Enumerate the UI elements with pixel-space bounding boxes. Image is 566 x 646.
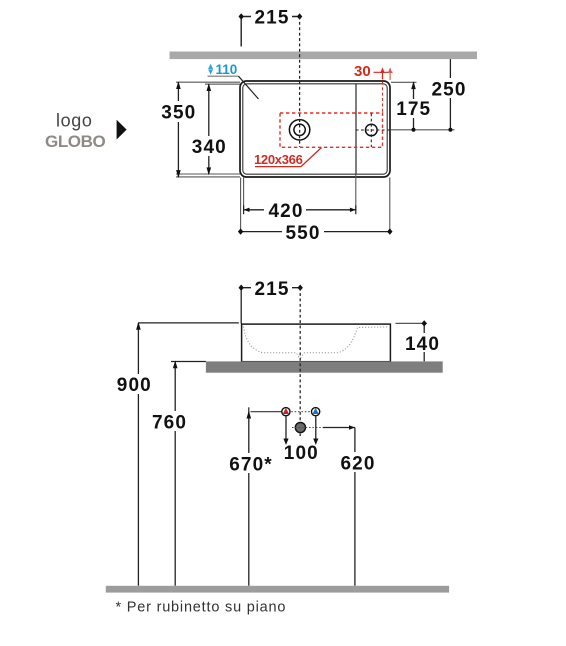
svg-text:250: 250 bbox=[431, 80, 466, 101]
svg-text:logo: logo bbox=[56, 111, 92, 131]
svg-text:340: 340 bbox=[192, 137, 227, 158]
dimension 350 (top view left) bbox=[160, 81, 197, 178]
dimension 420 (top view bottom) bbox=[244, 200, 356, 222]
drain circle (front view) bbox=[295, 422, 305, 432]
dimension 760 (front view left) bbox=[152, 361, 206, 586]
extension lines 350 bottom-left bbox=[176, 174, 240, 177]
svg-text:110: 110 bbox=[216, 62, 238, 77]
dimension 30 (red) bbox=[354, 63, 393, 80]
extension line right top (basin top edge) bbox=[391, 81, 417, 83]
dimension 250 (top view right) bbox=[431, 59, 468, 132]
svg-text:420: 420 bbox=[268, 201, 303, 222]
dimension 340 (top view left inner) bbox=[190, 83, 228, 175]
label 120x366 (red) with leader bbox=[254, 148, 322, 167]
svg-text:GLOBO: GLOBO bbox=[45, 132, 106, 151]
GLOBO logotype bbox=[45, 132, 106, 151]
dimension 550 (top view bottom) bbox=[238, 222, 393, 244]
hot water symbol (red) bbox=[282, 408, 290, 416]
label 110 depth (blue) with leader bbox=[208, 62, 259, 99]
small tap hole circle (top view) bbox=[356, 114, 391, 148]
countertop bar (front view) bbox=[206, 361, 443, 372]
basin outline outer (top view) bbox=[240, 81, 390, 177]
wall bar (top view) bbox=[170, 52, 478, 60]
red dashed rectangle 120x366 tap zone bbox=[280, 113, 383, 147]
svg-text:620: 620 bbox=[340, 453, 375, 474]
floor bar bbox=[106, 586, 449, 593]
svg-text:670*: 670* bbox=[229, 454, 273, 475]
svg-text:140: 140 bbox=[405, 334, 440, 355]
centre dashed line (top view) bbox=[299, 17, 301, 148]
svg-text:550: 550 bbox=[285, 223, 320, 244]
black play triangle bbox=[117, 120, 127, 140]
svg-text:100: 100 bbox=[284, 443, 319, 464]
supply dotted line (front view) bbox=[251, 411, 323, 413]
dimension 175 (top view right) bbox=[396, 81, 431, 132]
dimension 215 (top view) bbox=[239, 8, 303, 47]
svg-text:30: 30 bbox=[354, 63, 371, 80]
footnote bbox=[116, 600, 287, 616]
svg-text:120x366: 120x366 bbox=[254, 152, 303, 167]
drain dotted line and 620 corner bbox=[292, 425, 355, 429]
dimension 100 (front view) bbox=[283, 417, 318, 464]
svg-text:215: 215 bbox=[254, 279, 289, 300]
extension lines 350/340 top-left bbox=[176, 82, 240, 84]
dimension 215 (front view) bbox=[239, 279, 303, 324]
extension line right at hole centre level bbox=[391, 129, 455, 131]
dimension 670* (front view) bbox=[228, 407, 274, 586]
svg-text:900: 900 bbox=[117, 375, 152, 396]
cold water symbol (blue) bbox=[312, 408, 320, 416]
divider line tap deck (top view) bbox=[355, 84, 357, 174]
red dashed extension up from tap zone bbox=[382, 71, 384, 113]
svg-text:215: 215 bbox=[254, 8, 289, 29]
logo text bbox=[56, 111, 92, 131]
basin outline (front view) bbox=[242, 324, 391, 362]
svg-text:760: 760 bbox=[152, 412, 187, 433]
bowl dotted profile (front view) bbox=[244, 327, 390, 359]
centre dashed line (front view) bbox=[299, 288, 301, 436]
dimension 140 (front view right) bbox=[396, 320, 444, 361]
svg-text:* Per rubinetto su piano: * Per rubinetto su piano bbox=[116, 600, 287, 616]
svg-text:350: 350 bbox=[161, 103, 196, 124]
dimension 900 (front view left) bbox=[116, 322, 239, 586]
svg-text:175: 175 bbox=[396, 99, 431, 120]
drain/tap hole large circle (top view) bbox=[289, 120, 309, 140]
basin rim inner line (top view) bbox=[243, 84, 387, 174]
extension lines below basin (top view) bbox=[241, 175, 390, 232]
dimension 620 (front view) bbox=[336, 428, 376, 586]
